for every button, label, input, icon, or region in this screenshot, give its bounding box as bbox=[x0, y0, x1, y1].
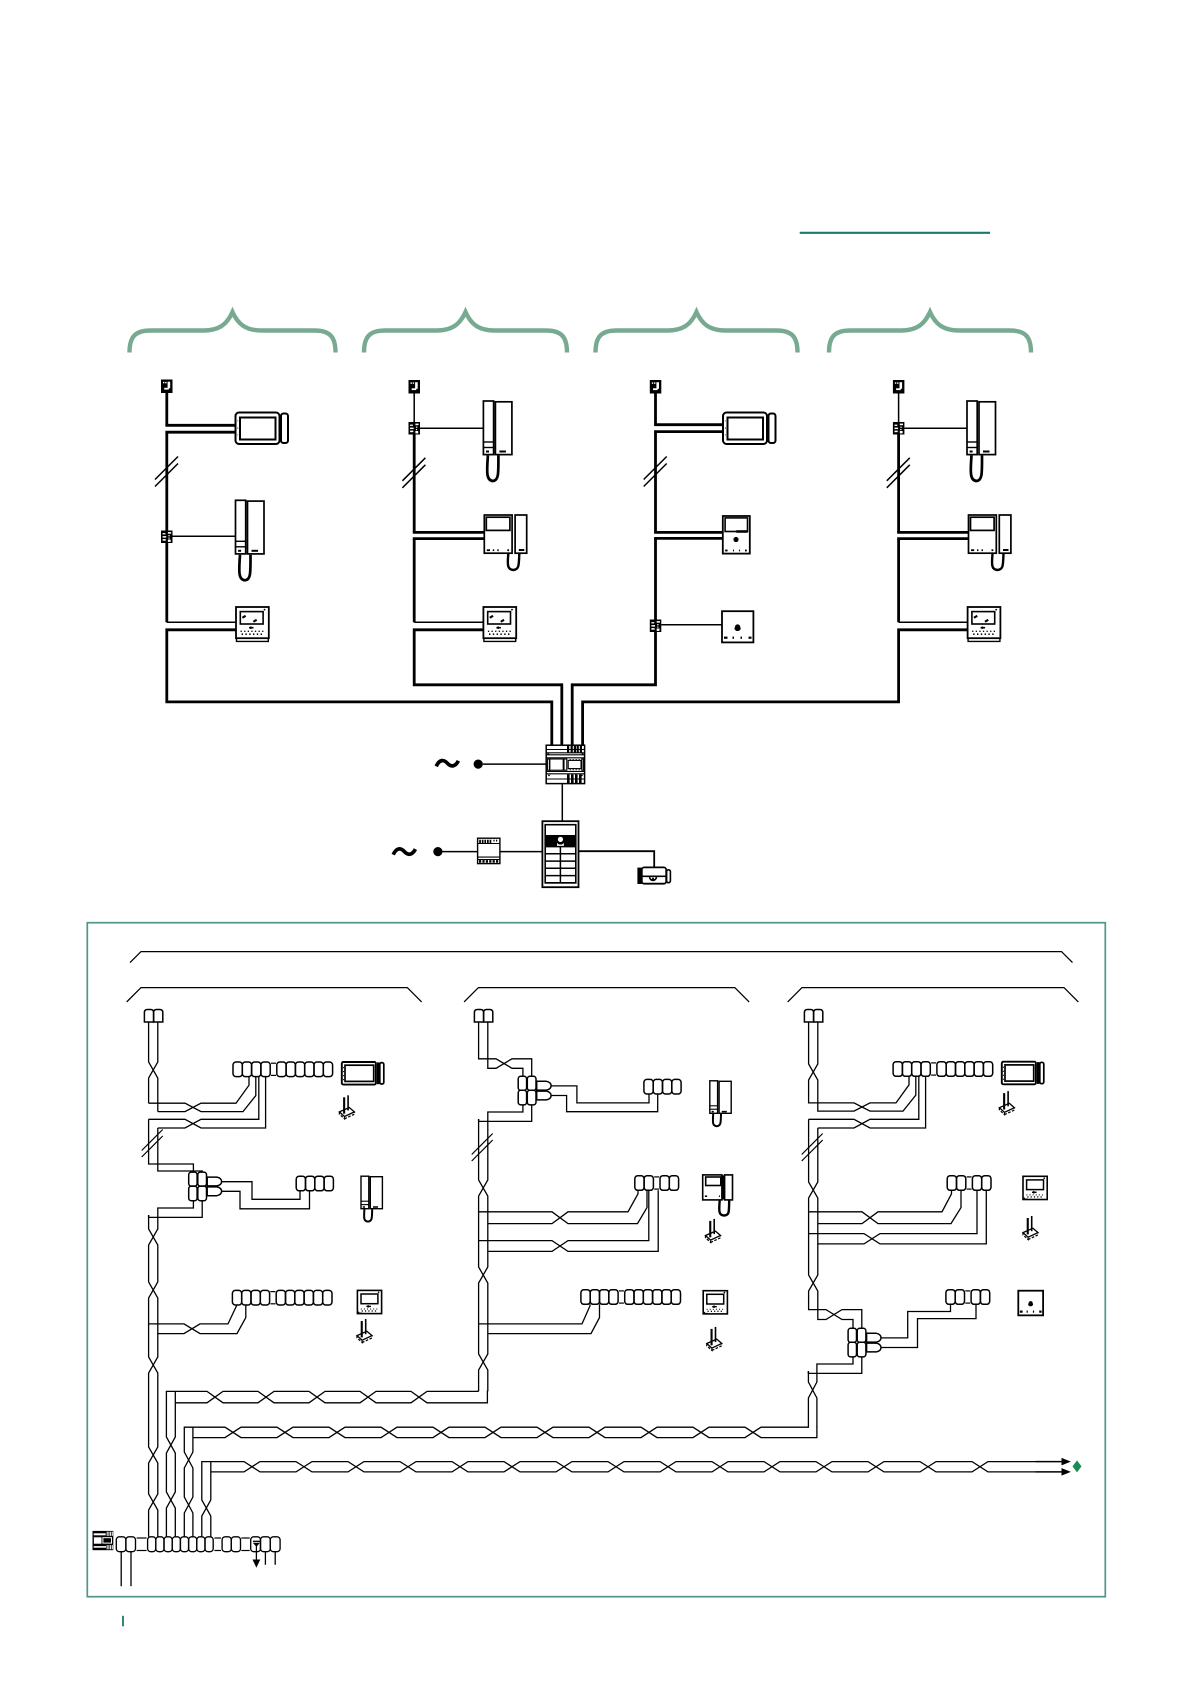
bus stub left outer bbox=[550, 701, 553, 746]
floor distributor column 3 bbox=[650, 620, 662, 633]
wire cluster A plug 2 bbox=[222, 1191, 310, 1209]
wire to actuator module 3 bbox=[661, 624, 722, 626]
audio phone B1 bbox=[710, 1081, 731, 1126]
plug base A3 bbox=[357, 1319, 372, 1343]
row 2 second tap pair column B bbox=[479, 1190, 659, 1251]
wire to video-handset monitor 4 (in) bbox=[897, 531, 968, 534]
wire cluster A plug 1 bbox=[222, 1182, 300, 1200]
wire riser 3 top bbox=[654, 394, 657, 425]
plug base B3 bbox=[707, 1327, 722, 1351]
cable break column 2 bbox=[402, 458, 425, 488]
cable break column 4 bbox=[887, 458, 910, 488]
main power supply (mini) bbox=[93, 1531, 114, 1550]
riser pair column C below cluster (jog) bbox=[817, 1357, 853, 1372]
door phone column 1 bbox=[236, 500, 265, 580]
row 3 tap pair column B bbox=[479, 1241, 600, 1334]
span bracket column B bbox=[464, 988, 749, 1002]
AC dot upper bbox=[474, 760, 483, 769]
bus pair 1 (strip to column B) bbox=[166, 1391, 487, 1537]
wire riser 3 to bus bbox=[572, 632, 655, 685]
video monitor column 3 bbox=[723, 413, 776, 445]
wire entrance panel to camera bbox=[579, 851, 655, 867]
wire from video-handset monitor 2 (out) bbox=[413, 537, 485, 540]
wire riser 4 top bbox=[898, 394, 900, 423]
transformer bbox=[478, 838, 500, 863]
AC tilde lower bbox=[393, 849, 415, 855]
AC dot lower bbox=[433, 847, 442, 856]
floor distributor column 4 bbox=[893, 422, 905, 435]
continuation diamond bbox=[1073, 1460, 1082, 1472]
cable break column 3 bbox=[644, 457, 667, 487]
overall span bracket bbox=[130, 952, 1073, 963]
audio phone A2 bbox=[361, 1176, 382, 1221]
brace riser 3 bbox=[596, 312, 798, 353]
wire AC to transformer bbox=[443, 851, 478, 853]
row 1 tap pair column A bbox=[149, 1077, 256, 1112]
footer page marker bbox=[122, 1616, 124, 1627]
wire cluster C plug 1 bbox=[881, 1304, 951, 1338]
riser pair column A below cluster (jog) bbox=[158, 1200, 194, 1215]
wire cluster C plug 2 bbox=[881, 1304, 976, 1347]
floor distributor column 2 bbox=[409, 422, 421, 435]
terminal strip ground square bbox=[251, 1537, 280, 1552]
door phone column 4 bbox=[967, 401, 996, 481]
plug base C2 bbox=[1023, 1216, 1038, 1240]
wire riser 3 lower bbox=[654, 538, 657, 619]
bus pair 3 (strip to continuation arrows) bbox=[202, 1462, 1036, 1537]
wire from monitor 1 (out) bbox=[165, 431, 235, 434]
row 2 tap pair column C bbox=[809, 1190, 961, 1223]
surveillance camera bbox=[637, 867, 670, 884]
cable run chain B1 bbox=[644, 1079, 681, 1094]
row 1 second tap pair column A bbox=[149, 1077, 266, 1128]
wire riser 4 mid bbox=[897, 435, 900, 533]
wire from handsfree 1 to bus (out) bbox=[167, 630, 552, 702]
ground arrow bbox=[255, 1552, 257, 1561]
cable run chain C1 bbox=[893, 1062, 993, 1077]
riser pair column C to cluster bbox=[809, 1234, 862, 1329]
row 2 tap pair column B bbox=[479, 1119, 647, 1224]
wire cluster B plug 1 bbox=[551, 1086, 649, 1103]
handsfree monitor C2 bbox=[1023, 1176, 1047, 1199]
cable run chain A3 bbox=[232, 1290, 332, 1305]
handsfree monitor column 1 bbox=[236, 607, 269, 641]
derivation cluster A bbox=[189, 1172, 222, 1201]
strip stub wires bbox=[264, 1552, 266, 1565]
wire from video-handset monitor 4 (out) bbox=[897, 537, 968, 540]
video monitor column 1 bbox=[236, 413, 289, 445]
wire to video-handset monitor 2 (in) bbox=[413, 531, 485, 534]
wire riser 1 mid bbox=[165, 432, 168, 530]
wire power supply to entrance panel bbox=[561, 784, 563, 822]
riser terminator icon column 3 bbox=[650, 380, 662, 394]
wire riser 2 mid bbox=[413, 435, 416, 533]
power supply unit bbox=[546, 745, 584, 783]
strip dashes 3 bbox=[241, 1537, 249, 1539]
floor distributor column 1 bbox=[161, 531, 173, 544]
riser pair column B to cluster bbox=[479, 1022, 523, 1076]
wire cluster B plug 2 bbox=[551, 1094, 658, 1112]
wire riser 2 top bbox=[413, 394, 415, 423]
cable break column C bbox=[802, 1134, 823, 1162]
earth symbol bbox=[253, 1540, 260, 1542]
riser pair column A upper bbox=[149, 1022, 158, 1112]
video monitor with handset column 4 bbox=[969, 515, 1011, 570]
row 3 tap pair column A bbox=[149, 1215, 237, 1334]
continuation arrows bbox=[1036, 1461, 1063, 1463]
plug base B2 bbox=[706, 1219, 721, 1243]
wire to speaker module (in) bbox=[654, 531, 723, 534]
cable terminals column A bbox=[144, 1010, 162, 1023]
derivation cluster B bbox=[518, 1076, 551, 1105]
riser pair column A to terminal strip bbox=[149, 1324, 158, 1537]
riser pair column A to cluster bbox=[149, 1119, 194, 1172]
derivation cluster C bbox=[848, 1328, 881, 1357]
riser terminator icon column 4 bbox=[893, 380, 905, 394]
wire from handsfree 2 to bus (out) bbox=[414, 630, 562, 685]
actuator module column 3 bbox=[722, 611, 753, 642]
terminal strip group 1 bbox=[116, 1537, 135, 1552]
wire to door phone 2 bbox=[420, 427, 483, 429]
brace riser 2 bbox=[364, 312, 567, 353]
handsfree monitor B3 bbox=[703, 1291, 727, 1314]
wire to door phone 4 bbox=[904, 427, 967, 429]
riser terminator icon column 1 bbox=[161, 380, 173, 394]
wire to door phone 1 bbox=[173, 535, 236, 537]
cable terminals column B bbox=[474, 1010, 492, 1023]
wire AC to power supply bbox=[483, 763, 546, 765]
strip dashes 1 bbox=[137, 1537, 147, 1539]
wire riser 2 lower bbox=[413, 539, 416, 623]
cable run chain A2 bbox=[296, 1176, 333, 1191]
cable break column B bbox=[472, 1134, 493, 1162]
wire riser 3 mid bbox=[654, 432, 657, 533]
cable run chain A1 bbox=[233, 1062, 333, 1077]
terminal strip group 2 bbox=[148, 1537, 214, 1552]
bus stub right inner bbox=[571, 683, 574, 745]
plug base A1 bbox=[339, 1095, 354, 1119]
bus stub left inner bbox=[560, 683, 563, 745]
riser pair column C to bus 2 bbox=[808, 1371, 817, 1427]
wire to monitor 1 (in) bbox=[165, 424, 235, 427]
wire to handsfree monitor 1 (in) bbox=[167, 621, 236, 623]
brace riser 4 bbox=[829, 312, 1031, 353]
wire riser 1 lower bbox=[165, 543, 168, 622]
video monitor with handset B2 bbox=[703, 1175, 733, 1216]
wire from handsfree 4 to bus (out) bbox=[583, 630, 968, 702]
video monitor A1 bbox=[342, 1062, 384, 1085]
cable run chain B3 bbox=[581, 1290, 681, 1305]
cable run chain B2 bbox=[635, 1176, 679, 1191]
handsfree monitor A3 bbox=[357, 1290, 381, 1313]
plug base C1 bbox=[999, 1091, 1014, 1115]
row 1 second tap pair column C bbox=[809, 1076, 926, 1128]
wire from speaker module (out) bbox=[654, 537, 723, 540]
bus pair 2 (strip to column C) bbox=[184, 1427, 817, 1537]
wire transformer to entrance panel bbox=[500, 851, 543, 853]
row 1 tap pair column C bbox=[809, 1022, 909, 1111]
riser pair column B below cluster (jog) bbox=[488, 1105, 523, 1119]
terminal strip group 3 bbox=[222, 1537, 240, 1552]
wire to handsfree monitor 2 (in) bbox=[414, 621, 483, 623]
door phone column 2 bbox=[483, 401, 512, 481]
riser pair column C middle bbox=[809, 1119, 818, 1223]
wire to handsfree monitor 4 (in) bbox=[899, 621, 968, 623]
entrance panel bbox=[542, 821, 578, 887]
cable break column 1 bbox=[155, 457, 178, 487]
wire riser 4 lower bbox=[897, 539, 900, 623]
riser pair column B to bus 1 bbox=[479, 1324, 488, 1392]
span bracket column C bbox=[788, 988, 1079, 1002]
actuator module C3 bbox=[1018, 1291, 1043, 1316]
bus stub right outer bbox=[581, 701, 584, 746]
brace riser 1 bbox=[130, 312, 336, 353]
strip dashes 2 bbox=[214, 1537, 221, 1539]
riser terminator icon column 2 bbox=[409, 380, 421, 394]
video monitor with handset column 2 bbox=[484, 515, 526, 570]
handsfree monitor column 2 bbox=[483, 607, 516, 641]
video monitor C1 bbox=[1002, 1062, 1044, 1085]
cable run chain C3 bbox=[946, 1290, 990, 1305]
strip output wires bbox=[120, 1552, 122, 1587]
wire riser 1 top bbox=[165, 393, 168, 425]
cable run chain C2 bbox=[947, 1176, 991, 1191]
span bracket column A bbox=[127, 988, 422, 1002]
handsfree monitor column 4 bbox=[968, 607, 1001, 641]
AC tilde upper bbox=[436, 761, 458, 767]
cable break column A bbox=[142, 1130, 163, 1158]
wire from monitor 3 (out) bbox=[654, 430, 723, 433]
cable terminals column C bbox=[804, 1010, 822, 1023]
wire to monitor 3 (in) bbox=[654, 423, 723, 426]
speaker module column 3 bbox=[723, 516, 750, 554]
teal separator line bbox=[800, 232, 990, 234]
row 2 second tap pair column C bbox=[809, 1190, 987, 1244]
wiring detail box border bbox=[87, 923, 1105, 1597]
